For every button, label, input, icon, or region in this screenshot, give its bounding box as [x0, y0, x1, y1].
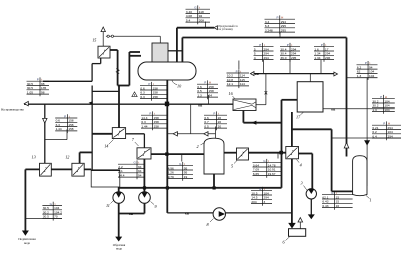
svg-text:6.4: 6.4 [372, 134, 377, 138]
svg-text:36.0: 36.0 [280, 56, 286, 60]
svg-text:158: 158 [68, 127, 73, 131]
svg-text:5: 5 [231, 164, 233, 169]
svg-text:1.44: 1.44 [141, 124, 147, 128]
svg-text:98: 98 [41, 90, 45, 94]
svg-text:вода: вода [116, 247, 122, 251]
svg-text:вода: вода [24, 241, 30, 245]
svg-text:1.34: 1.34 [314, 56, 320, 60]
svg-text:15: 15 [92, 38, 96, 43]
svg-text:14: 14 [104, 144, 108, 149]
svg-text:1: 1 [370, 198, 372, 203]
svg-text:1.3: 1.3 [372, 108, 377, 112]
svg-text:294: 294 [264, 56, 269, 60]
svg-text:6.43: 6.43 [322, 204, 328, 208]
svg-text:296: 296 [325, 56, 330, 60]
svg-text:16: 16 [336, 204, 340, 208]
svg-text:114: 114 [240, 82, 245, 86]
svg-text:1.05: 1.05 [27, 90, 33, 94]
svg-text:На производство: На производство [1, 107, 24, 111]
svg-text:3: 3 [264, 200, 266, 204]
svg-text:12: 12 [65, 155, 69, 160]
svg-text:9.79: 9.79 [168, 175, 174, 179]
svg-text:6.3: 6.3 [140, 95, 145, 99]
svg-text:158: 158 [153, 95, 158, 99]
svg-text:94: 94 [138, 173, 142, 177]
svg-text:на установку: на установку [219, 28, 234, 31]
svg-text:3: 3 [301, 181, 303, 186]
svg-text:4: 4 [254, 56, 256, 60]
svg-text:30.5: 30.5 [43, 215, 49, 219]
svg-text:1.3: 1.3 [357, 74, 362, 78]
svg-text:208: 208 [199, 18, 204, 22]
svg-text:0.5: 0.5 [204, 124, 209, 128]
svg-text:2: 2 [197, 144, 199, 149]
svg-text:104: 104 [384, 108, 389, 112]
svg-text:104: 104 [369, 74, 374, 78]
svg-text:295: 295 [281, 28, 286, 32]
svg-text:70: 70 [54, 215, 58, 219]
svg-text:1.44: 1.44 [56, 127, 62, 131]
svg-text:1.3: 1.3 [197, 93, 202, 97]
svg-text:294: 294 [388, 134, 393, 138]
svg-text:20: 20 [218, 124, 222, 128]
svg-text:19.67: 19.67 [268, 172, 276, 176]
svg-text:94: 94 [209, 93, 213, 97]
svg-text:4: 4 [300, 163, 302, 168]
svg-text:19: 19 [184, 175, 188, 179]
svg-text:204: 204 [251, 200, 256, 204]
svg-text:13: 13 [32, 155, 36, 160]
svg-text:3.248: 3.248 [265, 28, 273, 32]
svg-text:14.4: 14.4 [118, 173, 124, 177]
svg-text:295: 295 [291, 56, 296, 60]
svg-text:158: 158 [154, 124, 159, 128]
svg-text:11: 11 [106, 203, 110, 208]
svg-text:5.4: 5.4 [186, 18, 191, 22]
svg-text:6.65: 6.65 [253, 172, 259, 176]
svg-text:12.1: 12.1 [227, 82, 233, 86]
